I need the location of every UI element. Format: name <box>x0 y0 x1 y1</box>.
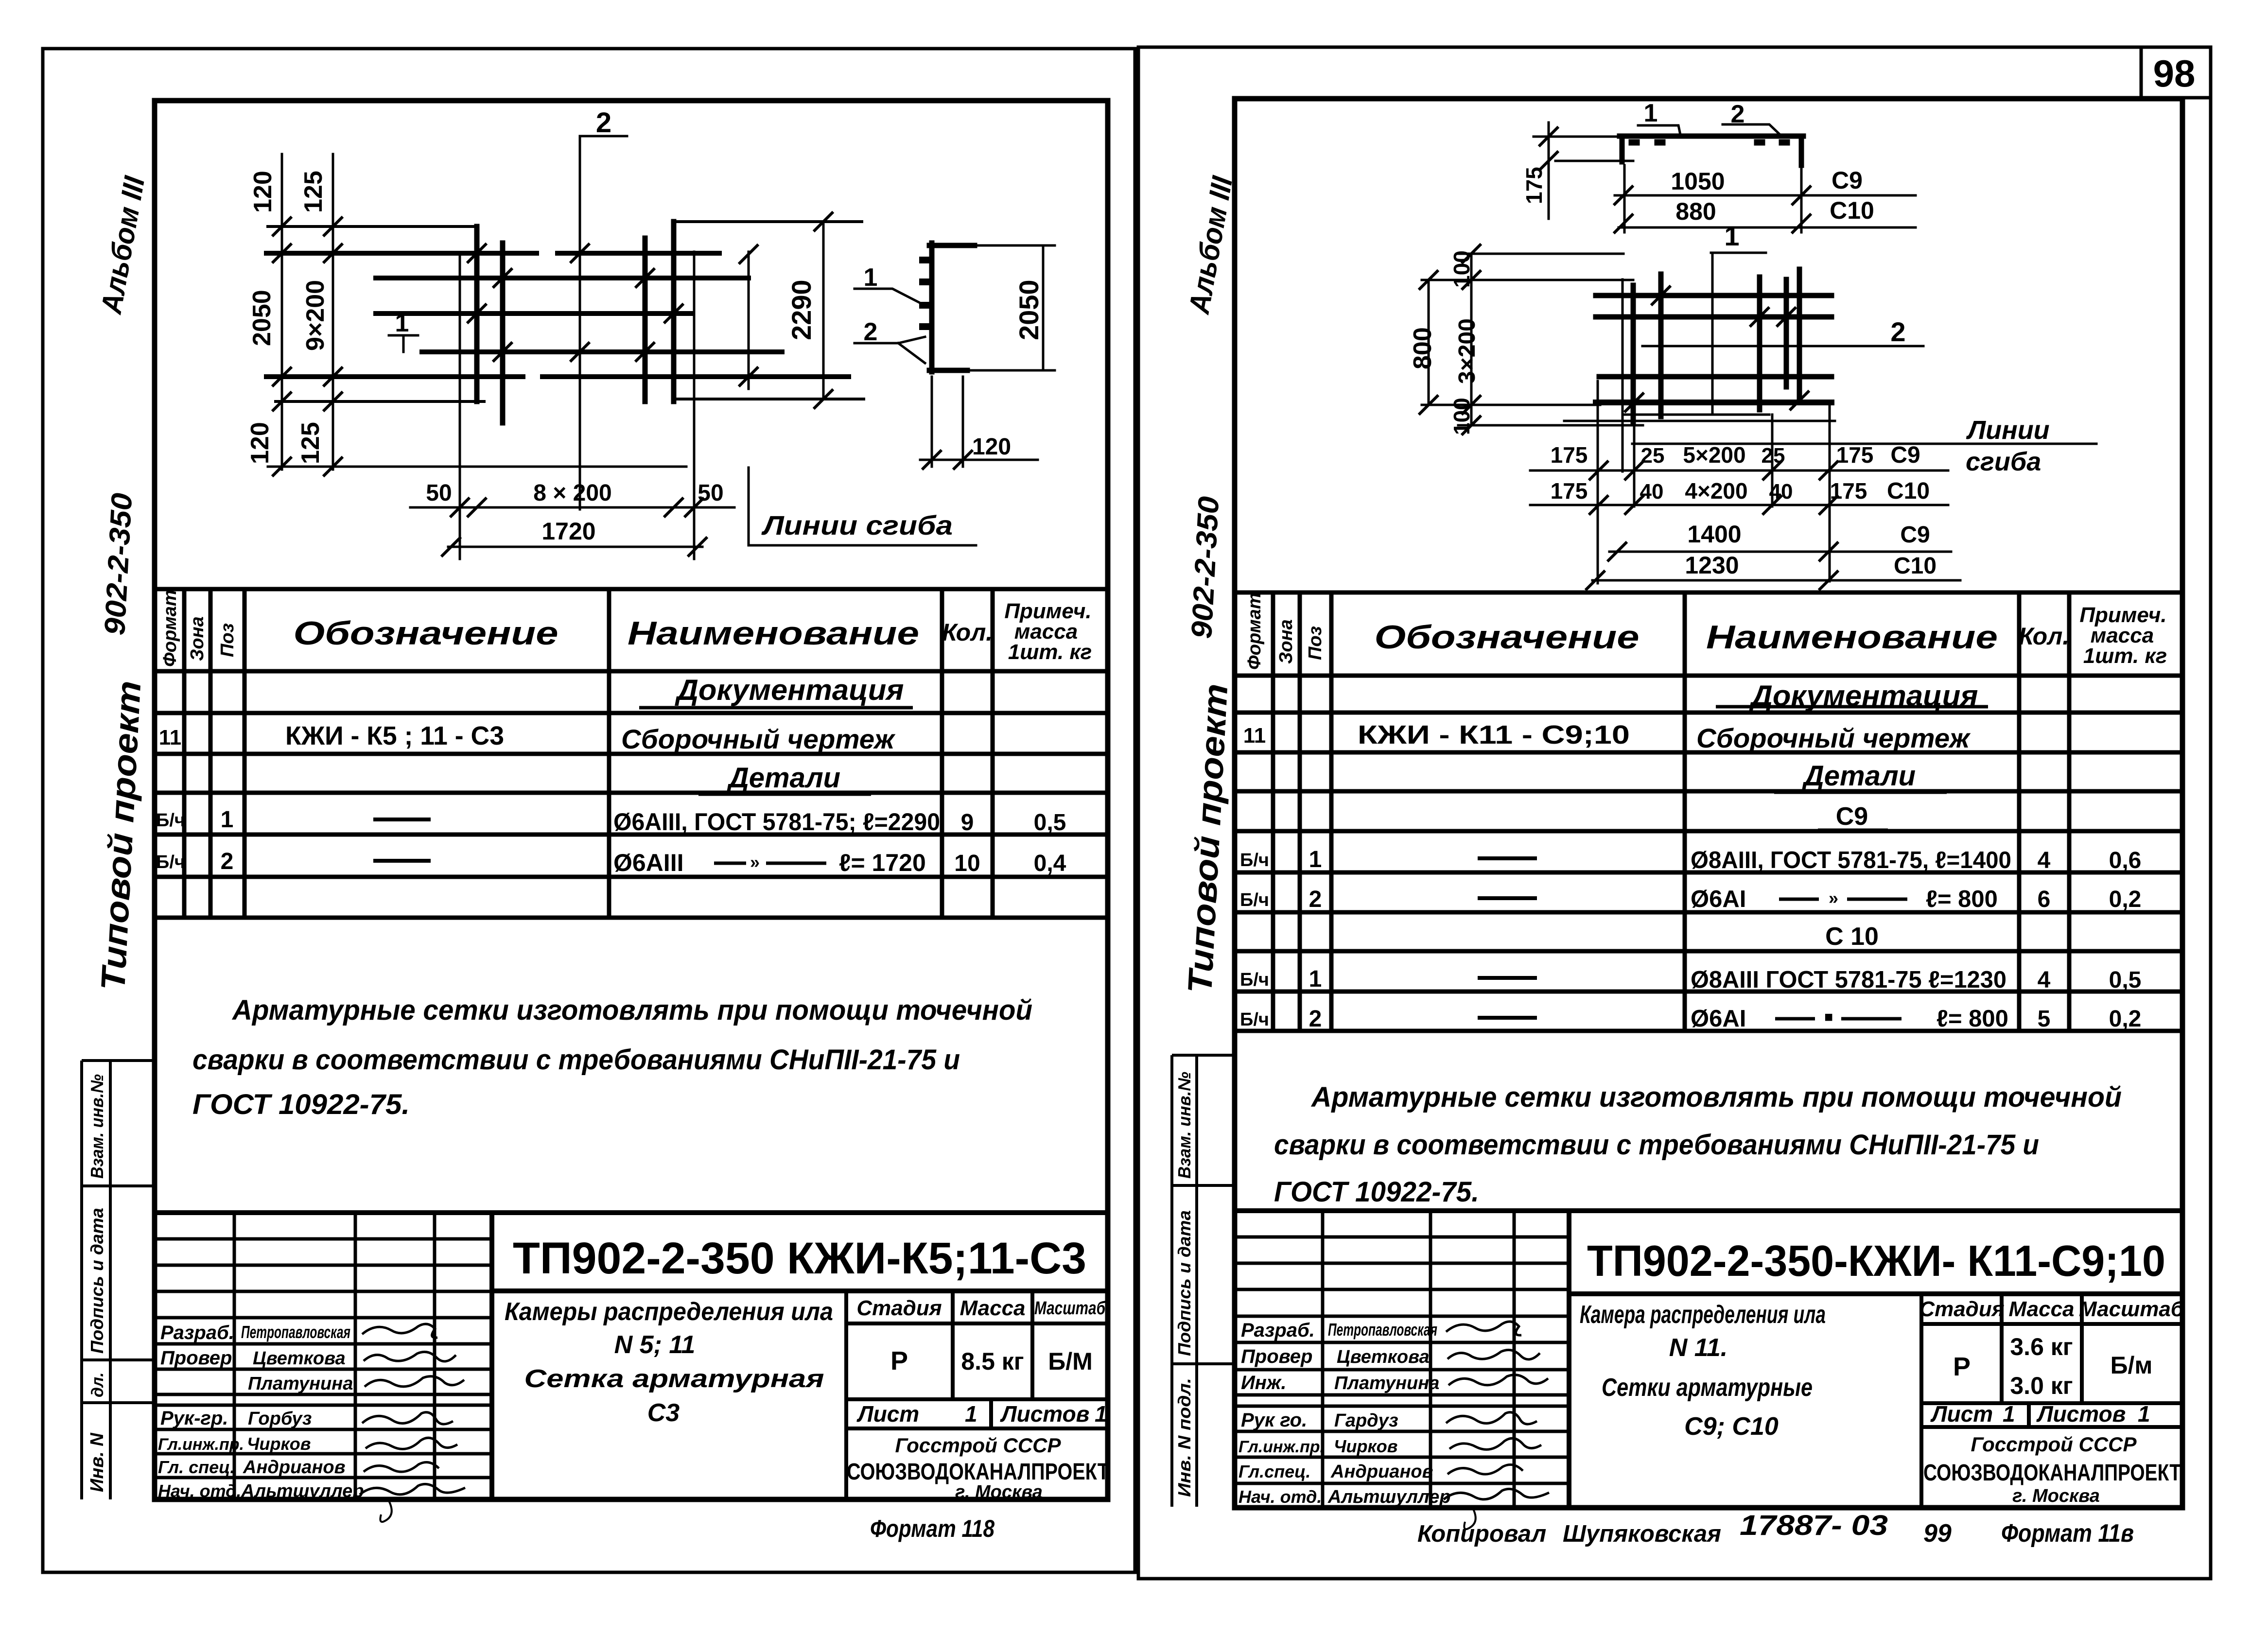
right dim 175 vertical <box>1534 122 1633 219</box>
svg-text:Листов: Листов <box>2036 1401 2126 1427</box>
svg-text:С3: С3 <box>647 1399 680 1427</box>
svg-text:Сборочный чертеж: Сборочный чертеж <box>621 724 896 754</box>
svg-text:сварки в соответствии с тре: сварки в соответствии с требованиями СНи… <box>1274 1129 2039 1161</box>
svg-text:Стадия: Стадия <box>856 1296 942 1320</box>
right dim 800 vertical <box>1422 280 1633 405</box>
signature flourish right <box>1464 1508 1475 1529</box>
svg-text:0,5: 0,5 <box>1034 810 1066 835</box>
mesh C3: top fold edge / dim line <box>268 225 476 228</box>
arrow ticks mesh crossings <box>468 244 682 361</box>
svg-text:175: 175 <box>1830 478 1867 504</box>
svg-text:125: 125 <box>297 422 325 464</box>
svg-text:Арматурные сетки изготовлять: Арматурные сетки изготовлять при помощи … <box>1310 1081 2122 1113</box>
svg-text:Цветкова: Цветкова <box>253 1348 346 1369</box>
svg-text:50: 50 <box>698 480 723 506</box>
svg-text:Обозначение: Обозначение <box>294 615 558 652</box>
right mesh wire 2 col4 <box>1784 279 1789 387</box>
svg-text:Лист: Лист <box>1930 1401 1993 1427</box>
svg-text:9: 9 <box>961 810 974 835</box>
svg-text:Лист: Лист <box>856 1401 919 1427</box>
wire 1 horizontal row4 <box>422 349 782 354</box>
svg-text:Госстрой СССР: Госстрой СССР <box>895 1434 1061 1457</box>
svg-text:С9: С9 <box>1832 167 1863 194</box>
svg-text:5: 5 <box>2038 1006 2051 1032</box>
svg-text:120: 120 <box>246 422 274 464</box>
svg-text:Ø8АIII ГОСТ 5781-75 ℓ=1230: Ø8АIII ГОСТ 5781-75 ℓ=1230 <box>1691 967 2006 993</box>
right arrow ticks top <box>1540 128 1810 232</box>
svg-text:9×200: 9×200 <box>301 280 330 351</box>
svg-text:Р: Р <box>1953 1352 1971 1381</box>
side view channel bar <box>929 243 975 372</box>
dim line 50 8x200 50 <box>410 506 734 509</box>
svg-text:Формат: Формат <box>1244 592 1265 670</box>
mesh C3: top right edge with 2290 dim line <box>676 220 862 223</box>
wire 2 vertical row1 <box>474 226 480 401</box>
svg-text:Разраб.: Разраб. <box>160 1322 234 1343</box>
right dim 880 line <box>1619 226 1916 229</box>
right mesh wire 1 row1 <box>1596 293 1832 298</box>
svg-text:С9; С10: С9; С10 <box>1684 1412 1779 1441</box>
svg-text:99: 99 <box>1923 1519 1952 1548</box>
svg-text:Б/ч: Б/ч <box>156 810 185 831</box>
svg-text:Кол.: Кол. <box>2019 623 2069 650</box>
right mesh wire 2 col2 <box>1658 274 1664 417</box>
svg-text:Ø6АIII: Ø6АIII <box>613 849 683 876</box>
svg-text:Госстрой СССР: Госстрой СССР <box>1971 1433 2137 1456</box>
svg-text:КЖИ - К11 - С9;10: КЖИ - К11 - С9;10 <box>1358 720 1630 749</box>
svg-text:Ø6АI: Ø6АI <box>1691 1006 1746 1032</box>
svg-text:сварки в соответствии с тр: сварки в соответствии с требованиями СНи… <box>192 1044 960 1076</box>
svg-text:Ø8АIII, ГОСТ 5781-75, ℓ=1400: Ø8АIII, ГОСТ 5781-75, ℓ=1400 <box>1691 847 2011 873</box>
right mesh wire 2 col5 <box>1797 269 1802 400</box>
svg-text:Платунина: Платунина <box>1334 1373 1439 1393</box>
mesh C3: dimension extension line left B <box>332 154 334 470</box>
dim right vertical ext <box>748 252 750 545</box>
svg-text:Провер: Провер <box>160 1347 232 1369</box>
svg-text:ГОСТ 10922-75.: ГОСТ 10922-75. <box>1274 1176 1479 1208</box>
svg-text:Нач. отд.: Нач. отд. <box>1239 1487 1322 1507</box>
wire 2 vertical row2 <box>500 243 506 423</box>
svg-text:0,2: 0,2 <box>2109 887 2142 912</box>
svg-text:Б/ч: Б/ч <box>1240 1009 1269 1030</box>
svg-text:N 5; 11: N 5; 11 <box>614 1331 696 1359</box>
svg-text:С 10: С 10 <box>1825 922 1879 951</box>
dim ext for 8x200 right <box>693 252 696 559</box>
svg-text:1: 1 <box>1309 966 1322 992</box>
svg-text:175: 175 <box>1551 478 1588 504</box>
svg-text:120: 120 <box>249 171 277 213</box>
svg-text:120: 120 <box>972 434 1011 460</box>
svg-text:1230: 1230 <box>1685 552 1739 579</box>
svg-text:г. Москва: г. Москва <box>955 1482 1043 1502</box>
svg-text:3.0 кг: 3.0 кг <box>2010 1372 2073 1399</box>
svg-text:»: » <box>1829 888 1838 908</box>
svg-text:Кол.: Кол. <box>942 619 993 646</box>
svg-text:Стадия: Стадия <box>1919 1297 2004 1321</box>
left spec table grid <box>157 589 1107 918</box>
wire 2 vertical row4 <box>671 222 677 401</box>
svg-text:2: 2 <box>1890 316 1905 347</box>
svg-text:Чирков: Чирков <box>1334 1436 1397 1456</box>
svg-text:Альтшуллер: Альтшуллер <box>241 1481 364 1501</box>
right flap top line <box>1624 414 1769 416</box>
svg-text:800: 800 <box>1409 327 1437 369</box>
svg-text:Зона: Зона <box>1276 619 1296 664</box>
svg-text:Нач. отд.: Нач. отд. <box>158 1481 241 1501</box>
dim 2050 vertical <box>967 245 1055 370</box>
svg-text:Б/ч: Б/ч <box>1240 970 1269 990</box>
svg-text:ТП902-2-350 КЖИ-К5;11-С3: ТП902-2-350 КЖИ-К5;11-С3 <box>513 1234 1086 1283</box>
svg-text:1: 1 <box>2138 1401 2150 1427</box>
right dim 1050 line <box>1615 194 1916 197</box>
svg-text:Сетки арматурные: Сетки арматурные <box>1602 1374 1813 1402</box>
svg-text:1: 1 <box>1644 99 1658 127</box>
side view label 2 leader <box>855 337 925 363</box>
svg-text:Копировал: Копировал <box>1417 1521 1546 1547</box>
wire 2 vertical row3 <box>643 238 648 401</box>
svg-text:Наименование: Наименование <box>628 615 919 652</box>
right bottom dim ext col a <box>1633 415 1636 506</box>
svg-text:1: 1 <box>2003 1401 2015 1427</box>
svg-text:Б/м: Б/м <box>2111 1352 2153 1379</box>
right side view top bar <box>1620 136 1803 165</box>
leader label 1 <box>389 335 418 352</box>
svg-text:Сборочный чертеж: Сборочный чертеж <box>1696 723 1971 753</box>
left sheet inner frame <box>155 101 1108 1499</box>
svg-text:880: 880 <box>1675 198 1716 225</box>
left title block grid <box>155 1213 1107 1499</box>
svg-text:Б/ч: Б/ч <box>1240 890 1269 910</box>
svg-text:Арматурные сетки изготовлять: Арматурные сетки изготовлять при помощи … <box>231 994 1032 1026</box>
wire 1 horizontal row1 <box>266 251 719 256</box>
svg-text:N 11.: N 11. <box>1669 1334 1727 1362</box>
left signatures scribbles <box>360 1324 465 1495</box>
svg-text:1: 1 <box>1095 1401 1107 1427</box>
arrow ticks 2290 <box>740 213 832 408</box>
side view label 1 leader <box>855 289 926 306</box>
svg-text:Поз: Поз <box>1305 626 1326 660</box>
svg-text:1: 1 <box>221 807 234 833</box>
svg-text:98: 98 <box>2153 52 2196 95</box>
svg-text:Р: Р <box>890 1346 908 1375</box>
svg-text:Инв. N подл.: Инв. N подл. <box>1174 1378 1194 1497</box>
svg-text:С9: С9 <box>1836 802 1868 831</box>
svg-text:2: 2 <box>864 318 878 346</box>
dim ext for 8x200 left <box>459 253 461 559</box>
svg-text:2: 2 <box>1731 100 1745 128</box>
svg-text:6: 6 <box>2038 887 2051 912</box>
mesh C3: dimension extension line left A <box>281 154 283 470</box>
svg-text:Петропавловская: Петропавловская <box>241 1322 350 1342</box>
svg-text:175: 175 <box>1551 442 1588 468</box>
svg-text:11: 11 <box>1243 724 1266 748</box>
svg-text:2050: 2050 <box>248 290 276 346</box>
page number box <box>2141 47 2211 98</box>
svg-text:Подпись и дата: Подпись и дата <box>87 1208 107 1354</box>
right arrow ticks bottom dims <box>1587 462 1837 589</box>
svg-text:0,6: 0,6 <box>2109 848 2142 873</box>
svg-text:Сетка арматурная: Сетка арматурная <box>524 1365 824 1393</box>
svg-text:Зона: Зона <box>187 616 208 661</box>
left stamp boxes <box>82 1061 155 1499</box>
signature flourish left <box>380 1501 391 1522</box>
svg-text:Документация: Документация <box>674 674 904 706</box>
svg-text:2050: 2050 <box>1013 279 1044 340</box>
right dim ext from side view left <box>1624 165 1801 232</box>
svg-text:Разраб.: Разраб. <box>1241 1320 1315 1341</box>
svg-text:»: » <box>750 852 760 872</box>
mesh C3: bottom band edge right / 2290 bottom <box>675 398 864 400</box>
svg-text:Андрианов: Андрианов <box>243 1457 346 1478</box>
svg-text:ТП902-2-350-КЖИ- К11-С9;10: ТП902-2-350-КЖИ- К11-С9;10 <box>1587 1237 2165 1286</box>
svg-text:Камера распределения ила: Камера распределения ила <box>1580 1301 1826 1329</box>
svg-text:Цветкова: Цветкова <box>1337 1347 1430 1367</box>
svg-text:100: 100 <box>1449 398 1474 435</box>
svg-text:2: 2 <box>596 107 611 139</box>
svg-text:8.5 кг: 8.5 кг <box>961 1348 1024 1375</box>
right flap left edge <box>1597 381 1599 583</box>
svg-text:1: 1 <box>395 309 409 337</box>
svg-text:1: 1 <box>1309 847 1322 872</box>
svg-text:Платунина: Платунина <box>248 1374 353 1394</box>
svg-text:1шт. кг: 1шт. кг <box>2083 644 2167 668</box>
svg-text:Андрианов: Андрианов <box>1330 1462 1433 1482</box>
right linii sgiba leader line <box>1632 443 2096 445</box>
svg-text:СОЮЗВОДОКАНАЛПРОЕКТ: СОЮЗВОДОКАНАЛПРОЕКТ <box>1923 1460 2181 1486</box>
right bottom dim ext col b <box>1771 415 1774 506</box>
svg-text:4: 4 <box>2038 967 2051 993</box>
dim 2290 vertical line <box>822 222 825 399</box>
svg-text:Детали: Детали <box>1801 760 1916 792</box>
svg-text:Взам. инв.№: Взам. инв.№ <box>87 1074 107 1179</box>
right dim 100-3x200-100 vertical <box>1458 254 1643 425</box>
arrow ticks left dims <box>273 218 342 475</box>
svg-text:Шупяковская: Шупяковская <box>1563 1521 1721 1547</box>
svg-text:ℓ= 800: ℓ= 800 <box>1926 886 1998 912</box>
svg-text:40: 40 <box>1640 480 1664 504</box>
svg-text:Масса: Масса <box>960 1296 1025 1320</box>
wire 1 horizontal row3 <box>376 311 693 316</box>
arrow ticks 120 dim <box>923 451 972 469</box>
leader label 2 vertical <box>580 136 627 509</box>
svg-text:2: 2 <box>1309 1006 1322 1032</box>
svg-text:ℓ= 1720: ℓ= 1720 <box>839 849 926 876</box>
svg-text:Подпись и дата: Подпись и дата <box>1174 1210 1194 1356</box>
dim line 1720 <box>448 546 702 548</box>
right sheet outer border <box>1138 47 2211 1579</box>
svg-text:Формат 11в: Формат 11в <box>2001 1519 2134 1548</box>
svg-text:8 × 200: 8 × 200 <box>533 480 611 506</box>
svg-text:17887- 03: 17887- 03 <box>1740 1510 1888 1541</box>
right side view label 1 leader <box>1638 125 1680 135</box>
svg-text:Наименование: Наименование <box>1706 619 1998 656</box>
svg-text:дл.: дл. <box>88 1372 107 1397</box>
svg-text:Гардуз: Гардуз <box>1334 1410 1398 1431</box>
svg-text:Б/ч: Б/ч <box>156 852 185 872</box>
svg-text:С10: С10 <box>1887 478 1930 504</box>
svg-text:С9: С9 <box>1890 442 1920 468</box>
svg-text:Поз: Поз <box>217 623 238 657</box>
svg-text:Гл.спец.: Гл.спец. <box>1239 1462 1310 1481</box>
svg-text:Петропавловская: Петропавловская <box>1328 1320 1437 1340</box>
svg-text:Масса: Масса <box>2008 1297 2074 1321</box>
right mesh wire 1 row3 <box>1599 374 1832 380</box>
right mesh wire 2 col3 <box>1757 277 1762 410</box>
svg-text:1: 1 <box>1724 221 1739 251</box>
svg-text:Формат: Формат <box>160 590 180 667</box>
svg-text:Масштаб: Масштаб <box>1034 1298 1106 1319</box>
right flap right edge <box>1829 402 1831 581</box>
svg-text:5×200: 5×200 <box>1683 442 1745 468</box>
svg-text:1050: 1050 <box>1671 168 1725 195</box>
svg-text:С9: С9 <box>1900 522 1930 548</box>
svg-text:Рук го.: Рук го. <box>1241 1410 1307 1431</box>
right dim row3 line <box>1609 551 1951 553</box>
svg-text:С10: С10 <box>1830 197 1874 224</box>
svg-text:1: 1 <box>864 263 878 292</box>
svg-text:1шт. кг: 1шт. кг <box>1008 640 1092 664</box>
svg-text:Детали: Детали <box>726 762 840 794</box>
svg-text:175: 175 <box>1521 167 1547 204</box>
svg-text:Рук-гр.: Рук-гр. <box>160 1408 228 1429</box>
svg-text:Б/ч: Б/ч <box>1240 850 1269 870</box>
right mesh wire 2 col1 <box>1631 285 1636 422</box>
svg-text:ℓ= 800: ℓ= 800 <box>1937 1006 2008 1032</box>
svg-text:Ø6АIII, ГОСТ 5781-75; ℓ=2290: Ø6АIII, ГОСТ 5781-75; ℓ=2290 <box>613 808 940 835</box>
svg-text:Обозначение: Обозначение <box>1375 619 1640 656</box>
right label 2 leader <box>1642 345 1923 348</box>
svg-text:■: ■ <box>1824 1009 1833 1025</box>
mesh C3: bottom outer edge <box>268 466 686 468</box>
arrow ticks bottom dims <box>442 499 706 556</box>
svg-text:10: 10 <box>954 851 980 876</box>
right title block grid <box>1235 1211 2181 1507</box>
svg-text:1720: 1720 <box>541 518 595 545</box>
svg-text:1: 1 <box>965 1401 977 1427</box>
svg-text:Формат 118: Формат 118 <box>870 1515 994 1542</box>
right signatures scribbles <box>1444 1322 1549 1499</box>
right mesh dim ext left thin <box>1622 279 1624 471</box>
right mesh wire 1 row2 <box>1596 314 1832 320</box>
dim 120 side view <box>920 377 1038 467</box>
svg-text:0,4: 0,4 <box>1034 851 1066 876</box>
svg-text:2: 2 <box>1309 887 1322 912</box>
svg-text:Б/М: Б/М <box>1048 1348 1092 1375</box>
svg-text:175: 175 <box>1836 442 1874 468</box>
svg-text:Альтшуллер: Альтшуллер <box>1327 1487 1451 1507</box>
svg-text:Взам. инв.№: Взам. инв.№ <box>1174 1072 1194 1179</box>
right side view wire dots <box>1632 139 1787 146</box>
mesh C3: bottom band edge left <box>276 400 484 403</box>
svg-text:Гл.инж.пр.: Гл.инж.пр. <box>158 1435 244 1454</box>
right dim row4 line <box>1592 579 1960 582</box>
svg-text:ГОСТ 10922-75.: ГОСТ 10922-75. <box>192 1089 410 1120</box>
wire 1 horizontal row5 <box>266 374 849 379</box>
right sheet inner frame <box>1235 99 2182 1508</box>
svg-text:25: 25 <box>1641 444 1665 468</box>
svg-text:сгиба: сгиба <box>1966 447 2041 476</box>
svg-text:0,2: 0,2 <box>2109 1006 2142 1032</box>
svg-text:3.6 кг: 3.6 кг <box>2010 1333 2073 1360</box>
right mesh wire 1 row4 fold <box>1596 400 1832 405</box>
svg-text:Инж.: Инж. <box>1241 1372 1287 1393</box>
svg-text:Ø6АI: Ø6АI <box>1691 886 1746 912</box>
svg-text:25: 25 <box>1762 444 1785 468</box>
right arrow ticks mesh <box>1420 245 1808 434</box>
svg-text:Гл. спец.: Гл. спец. <box>158 1457 235 1477</box>
svg-text:Инв. N: Инв. N <box>87 1432 107 1492</box>
svg-text:50: 50 <box>426 480 452 506</box>
svg-text:С10: С10 <box>1894 553 1937 579</box>
svg-text:Камеры распределения ила: Камеры распределения ила <box>505 1298 833 1326</box>
svg-text:Провер: Провер <box>1241 1346 1312 1367</box>
svg-text:КЖИ - К5 ; 11 - С3: КЖИ - К5 ; 11 - С3 <box>285 721 504 750</box>
right side view label 2 leader <box>1723 124 1780 135</box>
svg-text:125: 125 <box>299 171 328 213</box>
svg-text:100: 100 <box>1449 250 1474 288</box>
svg-text:0,5: 0,5 <box>2109 967 2142 993</box>
svg-text:1400: 1400 <box>1687 521 1741 548</box>
right spec table grid <box>1237 592 2181 1031</box>
right flap wide line <box>1564 420 1835 422</box>
linii sgiba underline leader <box>749 544 976 547</box>
svg-text:Чирков: Чирков <box>247 1434 311 1454</box>
svg-text:г. Москва: г. Москва <box>2012 1486 2100 1506</box>
svg-text:4×200: 4×200 <box>1685 478 1747 504</box>
svg-text:4: 4 <box>2038 848 2051 873</box>
svg-text:40: 40 <box>1769 480 1793 504</box>
svg-text:Листов: Листов <box>1000 1401 1089 1427</box>
svg-text:СОЮЗВОДОКАНАЛПРОЕКТ: СОЮЗВОДОКАНАЛПРОЕКТ <box>847 1459 1109 1485</box>
svg-text:2: 2 <box>221 849 234 874</box>
svg-text:Горбуз: Горбуз <box>248 1409 312 1429</box>
right dim row1 line <box>1530 470 1948 472</box>
svg-text:Масштаб: Масштаб <box>2079 1297 2185 1321</box>
right label 1 bracket <box>1711 253 1766 413</box>
svg-text:2290: 2290 <box>786 279 817 340</box>
svg-text:11: 11 <box>159 726 182 749</box>
svg-text:Линии: Линии <box>1966 416 2050 445</box>
side view wire dots <box>923 260 927 327</box>
svg-text:3×200: 3×200 <box>1454 318 1480 384</box>
left sheet outer border <box>43 49 1135 1572</box>
right stamp boxes <box>1172 1055 1235 1507</box>
svg-text:Гл.инж.пр.: Гл.инж.пр. <box>1239 1438 1325 1456</box>
right dim row2 line <box>1530 504 1948 506</box>
svg-text:Линии сгиба: Линии сгиба <box>761 510 953 540</box>
wire 1 horizontal row2 <box>376 276 749 280</box>
